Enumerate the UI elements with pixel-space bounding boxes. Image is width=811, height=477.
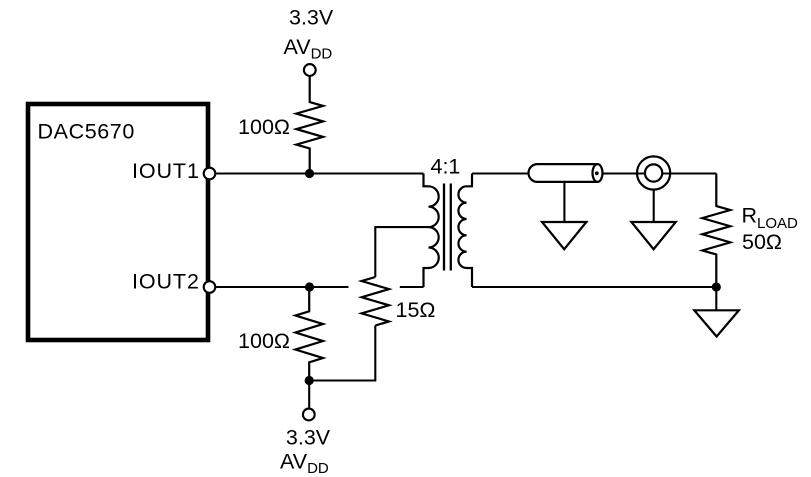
svg-text:50Ω: 50Ω: [742, 230, 782, 254]
resistor 100 ohm (top pull-up) with leads: [296, 76, 323, 174]
svg-text:IOUT1: IOUT1: [132, 159, 200, 183]
wire transformer center tap to 15 ohm resistor: [375, 227, 428, 277]
wire RLOAD node to ground: [715, 287, 717, 312]
wire 15 ohm bottom to AVDD junction: [309, 326, 375, 381]
resistor 15 ohm (center tap): [362, 277, 389, 326]
resistor RLOAD 50 ohm with leads: [702, 174, 730, 288]
wire connector shell to ground: [653, 190, 655, 224]
svg-text:4:1: 4:1: [431, 154, 461, 178]
transformer T1 primary winding (left, 4 loops): [424, 174, 439, 288]
AVDD supply terminal (top): [304, 64, 316, 76]
wire transformer secondary top to RLOAD: [472, 172, 716, 174]
DAC5670 IC box: [28, 104, 208, 340]
svg-text:IOUT2: IOUT2: [132, 270, 200, 294]
wire coax shield to ground: [563, 182, 565, 224]
svg-text:100Ω: 100Ω: [238, 329, 290, 353]
svg-text:100Ω: 100Ω: [238, 115, 290, 139]
transformer T1 core (two bars): [444, 184, 451, 271]
resistor 100 ohm (bottom pull-up) with leads: [295, 287, 323, 381]
connector (BNC) inner circle: [645, 164, 662, 181]
AVDD supply terminal (bottom): [303, 409, 315, 421]
junction 100ohm bottom / 15 ohm return node: [305, 376, 314, 385]
svg-text:DAC5670: DAC5670: [38, 120, 135, 144]
ground (RLOAD return): [694, 310, 739, 336]
ground (coax shield): [542, 222, 586, 249]
coax cable body: [529, 164, 598, 182]
svg-text:3.3V: 3.3V: [286, 426, 331, 450]
svg-text:3.3V: 3.3V: [289, 6, 334, 30]
wire junction to AVDD terminal (bottom): [308, 381, 310, 409]
coax cable center conductor dot: [595, 171, 599, 175]
wire IOUT2 to transformer primary bottom (gap where it passes behind 15 ohm resistor): [215, 286, 423, 288]
svg-text:15Ω: 15Ω: [396, 298, 436, 322]
junction RLOAD bottom / ground node: [712, 282, 721, 291]
transformer T1 secondary winding (right, 5 loops): [458, 174, 472, 288]
pin IOUT1 terminal circle: [204, 168, 216, 180]
connector (BNC) outer circle: [637, 156, 670, 189]
ground (connector shell): [631, 222, 675, 249]
wire IOUT1 to transformer primary top: [215, 172, 423, 174]
junction IOUT1/100ohm node: [305, 169, 314, 178]
junction IOUT2/100ohm node: [305, 282, 314, 291]
coax cable end face: [593, 164, 603, 182]
wire transformer secondary bottom to RLOAD ground node: [472, 286, 716, 288]
pin IOUT2 terminal circle: [204, 281, 216, 293]
